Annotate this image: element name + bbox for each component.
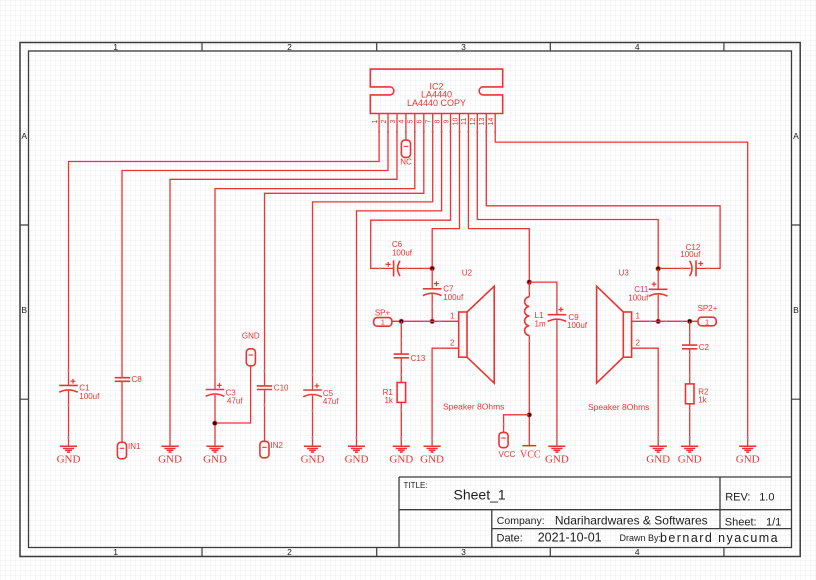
- svg-text:100uf: 100uf: [628, 294, 649, 303]
- C13 label: [411, 354, 426, 363]
- C10 label: [274, 384, 289, 393]
- U3 reference label: [619, 269, 630, 278]
- svg-text:C10: C10: [274, 384, 289, 393]
- junction node SP2+: [687, 319, 692, 324]
- C11 labels: [628, 285, 649, 302]
- svg-text:GND: GND: [203, 453, 227, 465]
- junction node U3 pin1: [656, 319, 661, 324]
- frame row letters: [21, 131, 799, 315]
- svg-text:1: 1: [113, 547, 118, 557]
- wire C13 to R1: [400, 358, 402, 383]
- wire pin14 to ground right: [495, 131, 748, 446]
- svg-text:Ndarihardwares & Softwares: Ndarihardwares & Softwares: [555, 513, 708, 527]
- IC2 reference label: [429, 81, 443, 91]
- frame row ticks left/right: [20, 225, 800, 399]
- svg-text:10: 10: [452, 118, 459, 126]
- wire C11 to U3 pin1 node: [657, 295, 659, 322]
- ground GND pin14 drop: [736, 436, 760, 465]
- junction node L1 top: [527, 280, 532, 285]
- svg-text:TITLE:: TITLE:: [404, 481, 428, 490]
- svg-text:3: 3: [461, 42, 466, 52]
- svg-text:4: 4: [635, 42, 640, 52]
- svg-text:VCC: VCC: [499, 450, 516, 459]
- R1 labels: [383, 388, 394, 405]
- svg-text:100uf: 100uf: [79, 392, 100, 401]
- ground GND under R2: [678, 436, 702, 465]
- wire pin2 to C8: [122, 131, 388, 377]
- wire R1 to ground: [400, 402, 402, 446]
- svg-text:IN2: IN2: [271, 441, 284, 450]
- svg-text:1k: 1k: [698, 396, 707, 405]
- ground GND under U3 pin2: [646, 436, 670, 465]
- ground GND pin8 drop: [345, 436, 369, 465]
- capacitor C5 47uf polarized: [303, 383, 322, 396]
- frame column ticks top/bottom: [202, 43, 724, 557]
- svg-text:12: 12: [470, 118, 477, 126]
- svg-text:LA4440 COPY: LA4440 COPY: [407, 98, 466, 108]
- wire pin5 to C3: [215, 131, 415, 389]
- wire C6 to node U2top: [398, 267, 432, 269]
- op-amp IC U-IC2 LA4440 body: [370, 69, 502, 113]
- svg-text:47uf: 47uf: [227, 397, 243, 406]
- svg-text:GND: GND: [545, 453, 569, 465]
- wire R2 to ground: [689, 404, 691, 447]
- speaker U3: [597, 286, 632, 383]
- svg-text:Sheet_1: Sheet_1: [454, 487, 506, 503]
- svg-text:GND: GND: [678, 453, 702, 465]
- wire C5 to ground: [312, 395, 314, 446]
- wire SP+ node to C13: [400, 321, 402, 354]
- port SP+: [374, 308, 392, 326]
- capacitor C12 100uf polarized horizontal: [690, 260, 704, 276]
- wire U3top to C11: [657, 269, 659, 290]
- U2 reference label: [462, 269, 473, 278]
- wire L1 to VCC bar: [528, 335, 530, 445]
- wire U2top to C7: [431, 268, 433, 288]
- svg-text:3: 3: [461, 547, 466, 557]
- svg-text:2: 2: [381, 119, 388, 123]
- junction node U2 top: [430, 266, 435, 271]
- wire pin11 to node L1top: [468, 131, 529, 282]
- svg-text:1: 1: [372, 119, 379, 123]
- title block sheet number: [725, 517, 781, 529]
- svg-text:13: 13: [479, 118, 486, 126]
- U3 pin 2 number: [636, 339, 641, 348]
- title block date and author row: [497, 531, 780, 546]
- svg-text:4: 4: [399, 119, 406, 123]
- svg-text:2021-10-01: 2021-10-01: [538, 531, 602, 545]
- port NC on pin 4: [400, 140, 412, 166]
- C2 label: [699, 343, 710, 352]
- wire pin7 to C5: [313, 131, 433, 390]
- pin end markers: [67, 263, 708, 433]
- C12 labels: [680, 243, 701, 259]
- svg-text:U3: U3: [619, 269, 630, 278]
- speaker U2: [459, 286, 495, 383]
- C6 labels: [392, 240, 413, 257]
- svg-text:1: 1: [381, 318, 385, 327]
- resistor R1 1k: [397, 383, 406, 403]
- svg-text:VCC: VCC: [520, 449, 541, 460]
- wire pin1 to C1: [69, 131, 380, 385]
- title block TITLE label: [404, 481, 428, 490]
- capacitor C6 100uf polarized horizontal: [386, 260, 400, 276]
- svg-text:GND: GND: [389, 453, 413, 465]
- svg-text:Speaker 8Ohms: Speaker 8Ohms: [443, 402, 504, 412]
- wire L1 node to C9: [529, 282, 557, 315]
- svg-text:C2: C2: [699, 343, 710, 352]
- svg-text:1: 1: [113, 42, 118, 52]
- junction node U2 pin1: [430, 319, 435, 324]
- svg-text:GND: GND: [420, 453, 444, 465]
- frame column numbers: [113, 42, 640, 557]
- svg-text:1/1: 1/1: [766, 517, 781, 529]
- ground GND under C3: [203, 436, 227, 465]
- C8 label: [132, 375, 143, 384]
- svg-text:GND: GND: [646, 453, 670, 465]
- ground GND under U2 pin2: [420, 436, 444, 465]
- capacitor C8: [115, 378, 130, 382]
- svg-text:Sheet:: Sheet:: [725, 517, 757, 529]
- wire GND port to C3 junction: [215, 366, 251, 423]
- C7 labels: [443, 285, 464, 302]
- ground GND pin3 drop: [158, 436, 182, 465]
- IC2 pins 1-14: [378, 114, 497, 133]
- R2 labels: [698, 388, 709, 405]
- L1 labels: [535, 311, 546, 328]
- wire U3 pin1 to SP2+: [632, 320, 699, 322]
- IC2 pin numbers 1-14: [372, 118, 495, 126]
- capacitor C2: [682, 345, 697, 349]
- port IN2: [260, 441, 284, 458]
- svg-text:2: 2: [287, 42, 292, 52]
- wire C10 to IN2 port: [264, 390, 266, 442]
- svg-text:SP2+: SP2+: [698, 304, 718, 313]
- wire L1 top lead: [528, 282, 530, 297]
- U2 value Speaker 8Ohms: [443, 402, 504, 412]
- svg-text:GND: GND: [736, 453, 760, 465]
- wire U3 pin2 to ground: [632, 348, 659, 446]
- ground GND under C9: [545, 436, 569, 465]
- svg-text:100uf: 100uf: [443, 293, 464, 302]
- svg-text:bernard nyacuma: bernard nyacuma: [660, 531, 779, 545]
- wire pin6 to C10: [265, 131, 424, 386]
- C9 labels: [567, 313, 588, 330]
- title block sheet name Sheet_1: [454, 487, 506, 503]
- power flag VCC: [520, 446, 541, 461]
- U3 value Speaker 8Ohms: [588, 402, 649, 412]
- wire C9 to ground: [556, 320, 558, 446]
- inductor L1 1m: [525, 297, 530, 336]
- port GND net label: [242, 332, 260, 366]
- U2 pin 1 number: [450, 312, 455, 321]
- ground GND under C1: [57, 436, 81, 465]
- svg-text:8: 8: [434, 119, 441, 123]
- svg-text:2: 2: [287, 547, 292, 557]
- svg-text:GND: GND: [301, 453, 325, 465]
- svg-text:11: 11: [461, 118, 468, 125]
- svg-text:100uf: 100uf: [567, 321, 588, 330]
- junction node VCC: [527, 412, 532, 417]
- wire SP2+ node to C2: [689, 321, 691, 345]
- U3 pin 1 number: [636, 312, 641, 321]
- svg-text:6: 6: [417, 119, 424, 123]
- capacitor C7 100uf polarized: [423, 281, 442, 295]
- svg-text:1m: 1m: [535, 320, 546, 329]
- capacitor C11 100uf polarized: [649, 282, 668, 296]
- capacitor C9 100uf polarized: [548, 307, 567, 321]
- svg-text:C8: C8: [132, 375, 143, 384]
- svg-text:4: 4: [635, 547, 640, 557]
- wire pin12 to node U3top: [477, 131, 658, 268]
- wire C1 to ground: [68, 391, 70, 447]
- wire C7 to U2 pin1 node: [431, 294, 433, 321]
- wire pin3 to ground: [170, 131, 397, 446]
- C3 labels: [226, 389, 244, 406]
- svg-text:SP+: SP+: [375, 308, 391, 317]
- svg-text:1: 1: [705, 317, 709, 326]
- ground GND under R1: [389, 436, 413, 465]
- wire VCC node to VCC port: [504, 415, 530, 433]
- title block REV 1.0: [725, 491, 774, 503]
- svg-text:1: 1: [636, 312, 641, 321]
- wire pin10 to node U2top: [432, 131, 459, 268]
- capacitor C3 47uf polarized: [206, 383, 225, 396]
- wire pin13 to C12: [486, 131, 720, 268]
- wire SP+ to U2 pin1: [392, 320, 459, 322]
- svg-text:9: 9: [443, 119, 450, 123]
- svg-text:47uf: 47uf: [323, 397, 339, 406]
- U2 pin 2 number: [450, 339, 455, 348]
- ground GND under C5: [301, 436, 325, 465]
- svg-text:Speaker 8Ohms: Speaker 8Ohms: [588, 402, 649, 412]
- C5 labels: [323, 389, 339, 406]
- IC2 value LA4440 COPY: [407, 98, 466, 108]
- svg-text:1.0: 1.0: [759, 491, 774, 503]
- svg-text:U2: U2: [462, 269, 473, 278]
- svg-text:14: 14: [488, 118, 495, 126]
- junction node SP+: [399, 319, 404, 324]
- wire pin4 to NC port: [405, 131, 407, 140]
- svg-text:NC: NC: [400, 157, 412, 166]
- wire C12 to node U3top: [658, 267, 690, 269]
- svg-text:5: 5: [408, 119, 415, 123]
- svg-text:GND: GND: [242, 332, 260, 341]
- svg-text:GND: GND: [345, 453, 369, 465]
- svg-text:B: B: [793, 305, 799, 315]
- svg-text:100uf: 100uf: [392, 248, 413, 257]
- svg-text:A: A: [793, 131, 799, 141]
- wire U2 pin2 to ground: [432, 348, 459, 446]
- svg-text:2: 2: [636, 339, 641, 348]
- port IN1: [117, 442, 141, 459]
- C1 labels: [79, 384, 100, 401]
- wire C3 to ground through junction: [214, 395, 216, 446]
- svg-text:REV:: REV:: [725, 491, 750, 503]
- svg-text:B: B: [21, 305, 27, 315]
- wire pin8 to ground: [357, 131, 442, 446]
- title block: [399, 477, 792, 548]
- svg-text:2: 2: [450, 339, 455, 348]
- capacitor C10: [257, 386, 272, 390]
- junction node U3 top: [656, 266, 661, 271]
- svg-text:C13: C13: [411, 354, 426, 363]
- port SP2+: [698, 304, 718, 326]
- resistor R2 1k: [686, 384, 695, 404]
- port VCC: [499, 423, 516, 459]
- svg-text:GND: GND: [158, 453, 182, 465]
- wire C8 to IN1 port: [121, 381, 123, 442]
- capacitor C1 100uf polarized: [59, 379, 78, 392]
- wire C2 to R2: [689, 349, 691, 384]
- svg-text:GND: GND: [57, 453, 81, 465]
- IC2 name LA4440: [421, 89, 452, 99]
- svg-text:Drawn By:: Drawn By:: [620, 533, 662, 543]
- svg-text:1: 1: [450, 312, 455, 321]
- junction C3/GND-port: [212, 421, 217, 426]
- svg-text:Date:: Date:: [497, 533, 523, 545]
- svg-text:A: A: [21, 131, 27, 141]
- title block company row: [497, 513, 708, 527]
- svg-text:100uf: 100uf: [680, 250, 701, 259]
- svg-text:IN1: IN1: [128, 442, 141, 451]
- svg-text:Company:: Company:: [497, 515, 545, 527]
- svg-text:3: 3: [390, 119, 397, 123]
- svg-text:7: 7: [426, 119, 433, 123]
- wire pin9 to C6: [371, 131, 451, 268]
- svg-text:1k: 1k: [384, 396, 393, 405]
- capacitor C13: [394, 354, 409, 358]
